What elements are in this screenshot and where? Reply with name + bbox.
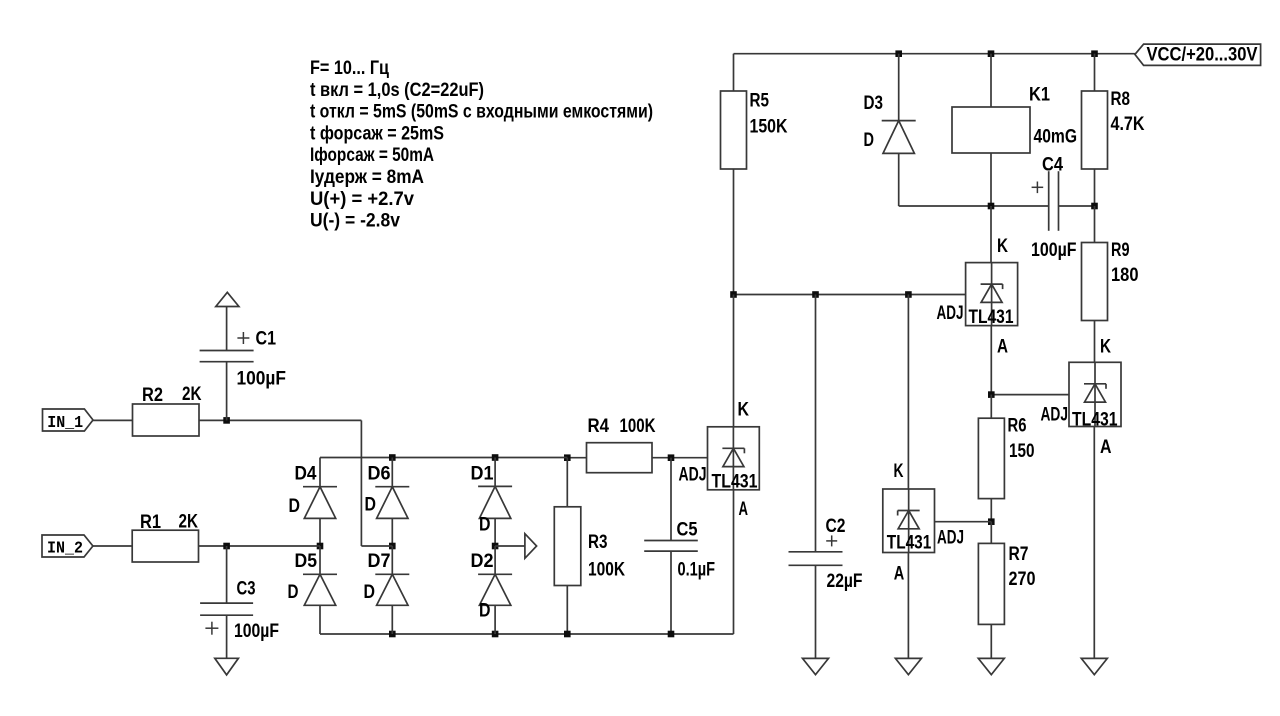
- wire bottom bus: [320, 633, 734, 635]
- wire D3 cathode: [898, 54, 900, 121]
- op-amp U2 TL431: [1041, 362, 1122, 458]
- svg-text:ADJ: ADJ: [937, 528, 964, 549]
- wire C1 bottom: [226, 362, 228, 421]
- ground U3: [895, 658, 921, 674]
- resistor R7: [978, 543, 1035, 624]
- plus mark C3: [205, 622, 218, 635]
- wire R9 bottom: [1094, 321, 1096, 363]
- svg-text:t откл = 5mS (50mS с входными: t откл = 5mS (50mS с входными емкостями): [310, 102, 653, 123]
- wire D5 anode: [319, 605, 321, 634]
- svg-text:100K: 100K: [620, 416, 656, 437]
- wire R8 bottom: [1094, 169, 1096, 206]
- wire D7 anode: [391, 605, 393, 634]
- wire R4 left: [567, 457, 586, 459]
- plus mark C4: [1032, 182, 1044, 194]
- wire D4 anode: [319, 518, 321, 546]
- wire C5 bottom: [670, 551, 672, 634]
- svg-text:270: 270: [1009, 569, 1036, 590]
- op-amp U3 TL431: [883, 461, 964, 585]
- svg-text:R9: R9: [1111, 240, 1130, 261]
- svg-text:ADJ: ADJ: [679, 465, 707, 486]
- node IN_2 flag: [42, 535, 93, 559]
- diode D1: [471, 464, 513, 536]
- diode D2: [471, 546, 513, 621]
- wire C4 to R9: [1059, 205, 1095, 207]
- junction on VCC rail at R8: [1091, 50, 1098, 57]
- junction U1-R6-U2 node: [988, 391, 995, 398]
- wire C3 bottom: [226, 615, 228, 658]
- wire R5 bottom: [733, 169, 735, 295]
- wire C2 top: [815, 295, 817, 552]
- junction R6-R7-U3 node: [988, 518, 995, 525]
- relay K1: [952, 85, 1077, 154]
- svg-text:D4: D4: [295, 464, 317, 485]
- op-amp U4 TL431: [679, 427, 760, 520]
- ground R7: [978, 658, 1004, 674]
- svg-text:D: D: [479, 514, 491, 535]
- wire K1 bottom: [990, 153, 992, 206]
- svg-text:D2: D2: [471, 551, 494, 572]
- svg-text:R1: R1: [140, 512, 161, 533]
- svg-text:VCC/+20...30V: VCC/+20...30V: [1147, 45, 1258, 66]
- wire R7 top: [990, 522, 992, 544]
- junction bottom bus R3: [564, 631, 571, 638]
- svg-text:t форсаж = 25mS: t форсаж = 25mS: [310, 123, 444, 144]
- wire U3 anode: [907, 553, 909, 659]
- svg-text:D: D: [864, 130, 875, 151]
- wire R3 top: [566, 458, 568, 507]
- svg-text:2K: 2K: [182, 384, 202, 405]
- svg-text:150: 150: [1009, 441, 1035, 462]
- wire C1 top: [226, 307, 228, 351]
- diode D3: [864, 93, 916, 154]
- svg-text:D6: D6: [368, 464, 391, 485]
- resistor R5: [721, 91, 788, 170]
- svg-text:A: A: [739, 499, 749, 520]
- wire D1 cathode: [494, 458, 496, 487]
- wire IN_2 to R1: [93, 545, 132, 547]
- svg-text:R4: R4: [588, 416, 610, 437]
- diode D4: [289, 464, 338, 519]
- svg-text:Iфорсаж = 50mA: Iфорсаж = 50mA: [310, 145, 434, 166]
- node VCC/+20...30V flag: [1135, 44, 1261, 65]
- junction output node at D1-D2: [492, 543, 499, 550]
- svg-text:D: D: [364, 582, 376, 603]
- svg-text:R2: R2: [142, 385, 163, 406]
- svg-text:F= 10... Гц: F= 10... Гц: [310, 58, 389, 79]
- svg-text:TL431: TL431: [712, 471, 758, 492]
- svg-text:IN_2: IN_2: [47, 540, 83, 559]
- wire U1 cathode: [990, 206, 992, 263]
- ground C3: [215, 658, 239, 675]
- wire IN_1 to R2: [93, 419, 133, 421]
- svg-text:ADJ: ADJ: [937, 303, 964, 324]
- junction on VCC rail at K1: [988, 50, 995, 57]
- svg-text:D1: D1: [471, 464, 494, 485]
- svg-text:2K: 2K: [179, 511, 199, 532]
- svg-text:150K: 150K: [750, 117, 788, 138]
- diode D7: [364, 546, 410, 605]
- svg-text:ADJ: ADJ: [1041, 404, 1069, 425]
- note text block: [310, 58, 653, 232]
- wire D1 anode: [494, 518, 496, 546]
- svg-text:Iудерж = 8mA: Iудерж = 8mA: [310, 167, 424, 188]
- svg-text:R7: R7: [1009, 544, 1029, 565]
- wire R5 top: [733, 54, 735, 91]
- wire U3 cathode: [907, 295, 909, 490]
- node IN_1 flag: [43, 409, 94, 433]
- wire D3 anode: [899, 153, 1049, 206]
- svg-text:180: 180: [1111, 265, 1139, 286]
- svg-text:t вкл = 1,0s (C2=22uF): t вкл = 1,0s (C2=22uF): [310, 80, 484, 101]
- wire D2 anode: [494, 605, 496, 634]
- svg-text:C4: C4: [1042, 155, 1063, 176]
- wire U3 adj: [935, 521, 992, 523]
- capacitor C1: [200, 329, 286, 390]
- svg-text:R6: R6: [1008, 416, 1027, 437]
- wire R7 bottom: [990, 624, 992, 658]
- svg-text:D7: D7: [368, 551, 391, 572]
- svg-text:D5: D5: [295, 551, 318, 572]
- svg-text:A: A: [894, 564, 905, 585]
- capacitor C4: [1031, 155, 1077, 261]
- wire C5 top: [670, 458, 672, 541]
- resistor R6: [978, 416, 1034, 499]
- svg-text:100K: 100K: [588, 560, 625, 581]
- svg-text:TL431: TL431: [887, 532, 932, 553]
- capacitor C5: [644, 519, 715, 580]
- svg-text:A: A: [1100, 437, 1112, 458]
- svg-text:D: D: [365, 494, 377, 515]
- wire K1 top: [990, 54, 992, 107]
- node output arrow: [525, 534, 537, 559]
- svg-text:D3: D3: [864, 93, 884, 114]
- junction mid bus at R5: [730, 291, 737, 298]
- junction bottom bus D7: [389, 631, 396, 638]
- junction R2 branch at D6-D7: [389, 543, 396, 550]
- svg-text:IN_1: IN_1: [47, 414, 83, 433]
- resistor R2: [133, 384, 202, 436]
- ground U2: [1081, 658, 1107, 674]
- wire R4 right: [652, 457, 708, 459]
- svg-text:C2: C2: [826, 516, 846, 537]
- svg-text:K: K: [997, 236, 1008, 257]
- wire U2 cathode label: [1100, 337, 1111, 358]
- wire U2 adj: [991, 394, 1069, 396]
- plus mark C2: [826, 535, 837, 546]
- resistor R9: [1082, 240, 1139, 321]
- junction C1 node: [223, 417, 230, 424]
- diode D6: [365, 464, 410, 519]
- svg-text:40mG: 40mG: [1034, 127, 1078, 148]
- resistor R3: [554, 507, 625, 586]
- resistor R4: [587, 416, 656, 473]
- junction top bus D6: [389, 454, 396, 461]
- wire R6 top: [990, 395, 992, 419]
- wire R2 branch down: [361, 420, 392, 546]
- wire diode top bus: [320, 458, 567, 487]
- wire R9 top: [1094, 206, 1096, 243]
- svg-text:100µF: 100µF: [1031, 240, 1077, 261]
- op-amp U1 TL431: [937, 236, 1018, 358]
- svg-text:K: K: [738, 400, 750, 421]
- wire R8 top: [1094, 54, 1096, 91]
- svg-text:K1: K1: [1029, 85, 1050, 106]
- svg-text:0.1µF: 0.1µF: [678, 560, 716, 581]
- junction bottom bus C5: [668, 631, 675, 638]
- junction C4-R8-R9 node: [1091, 203, 1098, 210]
- svg-text:R5: R5: [750, 91, 770, 112]
- wire output stub: [495, 545, 525, 547]
- wire U2 anode: [1093, 427, 1095, 659]
- svg-text:D: D: [288, 582, 299, 603]
- svg-text:100µF: 100µF: [237, 368, 287, 389]
- svg-text:D: D: [289, 496, 301, 517]
- junction diode bus-R4-R3 node: [564, 454, 571, 461]
- svg-text:C3: C3: [237, 579, 256, 600]
- wire R2 to branch: [199, 419, 361, 421]
- wire U4 anode: [733, 490, 735, 634]
- junction C3 node: [223, 543, 230, 550]
- svg-text:100µF: 100µF: [234, 621, 279, 642]
- capacitor C3: [200, 579, 279, 642]
- svg-text:D: D: [479, 600, 491, 621]
- junction R4-C5 node: [668, 454, 675, 461]
- resistor R1: [132, 511, 198, 562]
- ground C2: [803, 658, 829, 674]
- resistor R8: [1082, 89, 1145, 169]
- svg-text:TL431: TL431: [969, 307, 1014, 328]
- junction mid bus at C2: [812, 291, 819, 298]
- svg-text:K: K: [1100, 337, 1111, 358]
- junction mid bus at U3: [905, 291, 912, 298]
- svg-text:U(+) = +2.7v: U(+) = +2.7v: [310, 189, 414, 210]
- svg-text:R3: R3: [588, 532, 608, 553]
- diode D5: [288, 546, 338, 605]
- svg-text:C1: C1: [256, 329, 277, 350]
- svg-text:C5: C5: [677, 519, 698, 540]
- node VCC top rail wire: [734, 53, 1135, 55]
- svg-text:22µF: 22µF: [827, 571, 863, 592]
- wire R6 bottom: [990, 499, 992, 522]
- junction on VCC rail at D3: [895, 50, 902, 57]
- wire D6 anode: [391, 518, 393, 546]
- capacitor C2: [789, 516, 863, 592]
- wire mid bus: [734, 294, 966, 296]
- wire U1 anode: [990, 326, 992, 395]
- wire D6 cathode: [391, 458, 393, 487]
- junction K1-C4 node: [988, 203, 995, 210]
- svg-text:U(-) = -2.8v: U(-) = -2.8v: [310, 211, 400, 232]
- plus mark C1: [237, 332, 249, 344]
- svg-text:4.7K: 4.7K: [1111, 114, 1145, 135]
- junction bottom bus D2: [492, 631, 499, 638]
- junction IN_2 node at D4-D5: [317, 543, 324, 550]
- wire C3 top: [226, 546, 228, 603]
- svg-text:R8: R8: [1111, 89, 1131, 110]
- wire R1 to D4: [199, 545, 321, 547]
- svg-text:K: K: [894, 461, 904, 482]
- power up arrow above C1: [216, 292, 239, 306]
- svg-text:A: A: [997, 336, 1008, 357]
- wire R3 bottom: [566, 586, 568, 635]
- wire U4 cathode: [734, 295, 750, 427]
- junction top bus D1: [492, 454, 499, 461]
- wire C2 bottom: [815, 565, 817, 658]
